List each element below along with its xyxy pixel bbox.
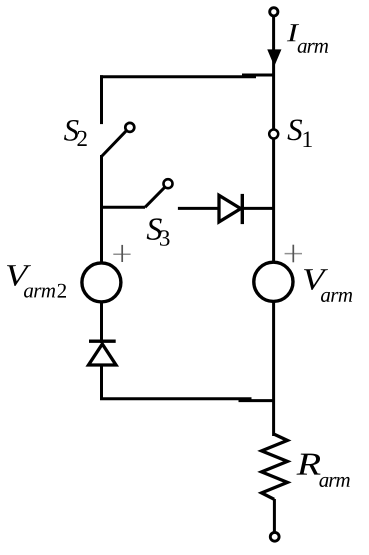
label R_arm [297,454,350,487]
terminal top [270,8,278,16]
wire left rail [100,155,103,263]
switch S3 [102,179,173,207]
wire to diode D3 [178,207,220,210]
wire bottom horizontal [100,397,252,400]
source V_arm2 [82,263,121,302]
wire resistor to terminal [273,499,276,532]
label V_arm [304,269,352,302]
wire right rail lower [272,301,275,437]
label S1 [288,120,312,148]
label S3 [147,218,170,245]
switch S1 [269,130,278,139]
terminal bottom [270,532,279,541]
label V_arm2 [7,265,66,297]
source V_arm [254,262,293,301]
wire left drop [100,75,103,124]
wire top horizontal [100,75,256,78]
label I_arm [287,24,328,53]
plus sign V_arm2 [113,245,130,262]
diode D2 (vertical, pointing up) [89,341,117,365]
label S2 [64,120,87,146]
plus sign V_arm [285,245,302,263]
wire top vertical [272,16,275,263]
switch S2 [102,123,135,157]
wire left bottom [100,365,103,399]
wire below V_arm2 [100,301,103,343]
arrowhead I_arm [268,50,281,66]
wire diode to right rail [240,207,275,210]
resistor R_arm [262,434,288,499]
diode D3 (horizontal) [219,194,242,224]
